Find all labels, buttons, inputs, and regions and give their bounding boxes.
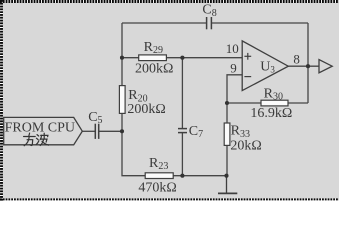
wire op-amp output: [288, 65, 319, 67]
junction node R29 left: [120, 56, 124, 60]
junction node output: [306, 64, 310, 68]
op-amp minus sign: [244, 76, 251, 78]
svg-text:16.9kΩ: 16.9kΩ: [250, 106, 292, 121]
svg-text:20kΩ: 20kΩ: [230, 139, 261, 154]
resistor R29: [139, 55, 167, 61]
wire C7 branch upper: [181, 58, 183, 129]
label fangbo square wave: [24, 133, 49, 146]
svg-text:9: 9: [230, 61, 237, 76]
wire R20 branch top: [121, 58, 123, 86]
wire R29 row to op-amp pin 10: [166, 57, 242, 59]
wire from CPU tag to C5: [82, 130, 95, 132]
junction node ground rail: [224, 174, 228, 178]
svg-text:200kΩ: 200kΩ: [135, 62, 173, 77]
wire bottom rail R23 to ground node: [173, 175, 226, 177]
op-amp U3: [242, 41, 288, 91]
wire R29 row left: [122, 57, 139, 59]
resistor R20: [119, 86, 125, 114]
wire R20 branch bottom: [121, 113, 123, 131]
resistor R33: [224, 123, 230, 145]
input tag FROM CPU: [4, 117, 83, 144]
capacitor C5: [95, 124, 98, 139]
wire op-amp pin 9 to feedback node: [227, 75, 261, 103]
wire R30 right to output vertical: [288, 102, 308, 104]
svg-text:8: 8: [293, 51, 300, 66]
wire C5 to junction: [99, 130, 122, 132]
junction node feedback: [225, 101, 229, 105]
output buffer triangle: [319, 60, 332, 73]
junction node C5-R20: [120, 129, 124, 133]
resistor R23: [145, 173, 173, 179]
capacitor C7: [178, 129, 187, 133]
wire R33 bottom: [226, 145, 228, 175]
wire R33 top: [226, 103, 228, 123]
resistor R30: [261, 100, 288, 106]
wire C7 branch lower: [181, 133, 183, 176]
wire left vertical from top to R29 row: [121, 23, 123, 58]
wire right vertical C8 to R30: [307, 23, 309, 103]
svg-text:470kΩ: 470kΩ: [138, 181, 176, 196]
wire top feedback left segment: [122, 22, 206, 24]
junction node C7 bottom: [180, 174, 184, 178]
ground: [218, 176, 237, 194]
wire left drop to bottom rail: [122, 131, 145, 175]
svg-text:200kΩ: 200kΩ: [127, 102, 165, 117]
svg-text:FROM CPU: FROM CPU: [5, 120, 75, 135]
wire top feedback right segment: [212, 22, 308, 24]
op-amp plus sign: [244, 53, 251, 60]
capacitor C8: [207, 17, 212, 29]
junction node C7 top: [180, 56, 184, 60]
svg-text:10: 10: [226, 41, 239, 56]
